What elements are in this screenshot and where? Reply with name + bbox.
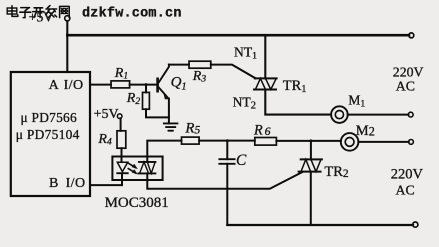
resistor R6 <box>255 138 277 146</box>
svg-text:220V: 220V <box>391 166 424 182</box>
wire +5V to R4 <box>120 118 122 131</box>
capacitor C <box>219 141 247 225</box>
IC U1 μPD7566 / μPD75104 <box>11 72 90 196</box>
wire +5V down to top rail <box>66 21 68 35</box>
wire R4 to optocoupler LED <box>121 148 123 162</box>
terminal AC M2 right <box>409 140 414 145</box>
wire junction down to R2 <box>145 85 147 93</box>
junction C on R5-R6 wire <box>226 139 229 142</box>
terminal AC bottom right <box>413 222 418 227</box>
svg-text:C: C <box>236 152 247 169</box>
svg-text:AC: AC <box>396 182 415 197</box>
wire TR2 down to bottom rail <box>310 172 312 225</box>
light arrows <box>128 163 137 174</box>
watermark 电子开发网 <box>7 6 69 18</box>
wire Q1 emitter down to ground <box>168 99 170 124</box>
wire R6 to M2 <box>276 140 340 142</box>
resistor R5 <box>182 137 200 144</box>
wire M2 to AC terminal <box>358 141 408 143</box>
svg-text:μ PD75104: μ PD75104 <box>16 127 80 142</box>
junction TR2 on wire <box>309 139 312 142</box>
wire phototriac top to R5 row <box>147 141 181 162</box>
motor M2 <box>341 123 375 151</box>
ground <box>164 123 178 130</box>
wire R5 to R6 <box>199 140 255 142</box>
wire bottom rail <box>227 224 413 226</box>
resistor R4 <box>117 131 126 148</box>
svg-text:220V: 220V <box>393 65 424 80</box>
svg-text:R6: R6 <box>253 122 273 138</box>
resistor R3 <box>189 61 211 68</box>
terminal AC line top right <box>409 33 414 38</box>
wire top rail <box>67 34 409 37</box>
svg-text:μ PD7566: μ PD7566 <box>21 110 77 125</box>
triac TR1 <box>254 78 306 95</box>
junction R1/R2/base <box>145 83 148 86</box>
wire R2 bottom to emitter line <box>146 109 169 117</box>
wire Q1 collector to R3 <box>169 64 189 66</box>
triac TR2 <box>299 159 349 180</box>
wire rail down to TR1 <box>264 35 266 78</box>
wire M1 to AC terminal <box>348 114 409 116</box>
resistor R1 <box>111 81 130 88</box>
resistor R2 <box>143 92 150 109</box>
svg-text:MOC3081: MOC3081 <box>105 195 169 211</box>
wire B I/O to LED cathode <box>90 174 122 185</box>
wire R1 to Q1 base <box>130 84 157 86</box>
svg-text:AC: AC <box>396 78 415 93</box>
wire R3 to TR1 gate <box>211 65 256 79</box>
wire junction down to TR2 <box>310 141 312 160</box>
svg-text:AI/O: AI/O <box>49 78 84 93</box>
phototriac inside MOC3081 <box>138 162 155 174</box>
svg-text:dzkfw.com.cn: dzkfw.com.cn <box>82 7 182 22</box>
terminal AC M1 right <box>408 112 413 117</box>
wire MOC output to TR2 gate <box>147 172 302 189</box>
svg-text:M2: M2 <box>356 123 375 139</box>
wire TR1 to M1 <box>265 90 331 115</box>
svg-text:BI/O: BI/O <box>49 176 85 191</box>
motor M1 <box>331 93 365 123</box>
svg-text:+5V: +5V <box>94 107 119 122</box>
optocoupler U2 MOC3081 box <box>112 157 162 181</box>
transistor Q1 <box>158 65 187 99</box>
wire rail down into U1 <box>66 35 68 72</box>
LED inside MOC3081 <box>117 162 127 173</box>
wire A I/O to R1 <box>90 84 111 86</box>
svg-text:+5V: +5V <box>29 10 54 25</box>
